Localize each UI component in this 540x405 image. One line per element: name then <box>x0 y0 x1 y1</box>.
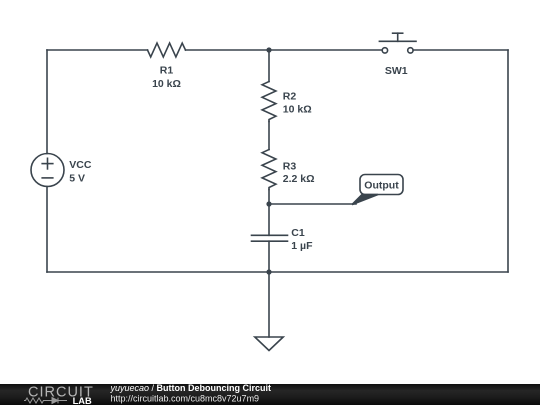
wire node A to SW1 <box>269 49 382 51</box>
wire left rail upper <box>46 50 48 154</box>
node A junction dot <box>266 47 271 52</box>
svg-text:Output: Output <box>364 179 399 191</box>
wire bottom rail <box>47 271 508 273</box>
node C junction dot <box>266 269 271 274</box>
svg-text:10 kΩ: 10 kΩ <box>283 103 312 115</box>
wire R3 to node B <box>268 190 270 205</box>
svg-text:2.2 kΩ: 2.2 kΩ <box>283 173 315 185</box>
wire C1 to bottom rail <box>268 241 270 272</box>
svg-text:http://circuitlab.com/cu8mc8v7: http://circuitlab.com/cu8mc8v72u7m9 <box>111 394 260 404</box>
svg-text:10 kΩ: 10 kΩ <box>152 78 181 90</box>
footer bar <box>0 384 540 405</box>
wire top-left horizontal <box>47 49 148 51</box>
svg-text:R3: R3 <box>283 161 297 173</box>
resistor R1 <box>148 43 186 90</box>
node B junction dot <box>266 201 271 206</box>
svg-text:1 µF: 1 µF <box>291 240 313 252</box>
resistor R3 <box>262 150 314 190</box>
ground symbol <box>255 337 283 351</box>
svg-text:R2: R2 <box>283 90 297 102</box>
svg-text:R1: R1 <box>160 65 174 77</box>
switch SW1 pushbutton <box>379 33 416 77</box>
voltage source VCC V1 <box>31 154 92 187</box>
wire left rail lower <box>46 187 48 273</box>
wire R2 to R3 <box>268 122 270 150</box>
CircuitLab logo wordmark CIRCUIT <box>28 384 94 400</box>
wire SW1 to top-right corner <box>413 49 508 51</box>
svg-text:5 V: 5 V <box>69 173 85 185</box>
net flag Output <box>352 175 403 205</box>
svg-text:VCC: VCC <box>69 159 92 171</box>
wire right rail <box>507 50 509 272</box>
footer url line <box>111 394 260 404</box>
svg-text:SW1: SW1 <box>385 65 408 77</box>
CircuitLab logo wordmark LAB <box>73 396 92 405</box>
CircuitLab logo resistor-diode doodle <box>24 398 67 404</box>
svg-text:C1: C1 <box>291 227 305 239</box>
capacitor C1 <box>252 227 314 252</box>
wire node C to ground <box>268 272 270 337</box>
svg-text:yuyuecao / Button Debouncing C: yuyuecao / Button Debouncing Circuit <box>110 383 272 393</box>
wire node A down to R2 <box>268 50 270 82</box>
footer title line <box>110 383 272 393</box>
wire R1 to node A <box>186 49 270 51</box>
wire node B to output flag <box>269 203 356 205</box>
wire node B to C1 <box>268 204 270 235</box>
resistor R2 <box>262 82 312 122</box>
svg-text:LAB: LAB <box>73 396 92 405</box>
